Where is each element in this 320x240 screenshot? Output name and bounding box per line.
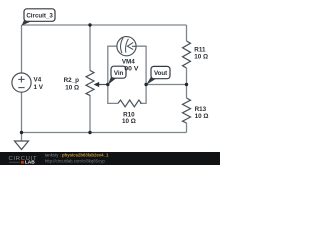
footer logo LAB row bbox=[9, 161, 20, 163]
wire R2_p bottom lead bbox=[89, 95, 91, 133]
wire right rail middle bbox=[186, 68, 188, 98]
wire R2_p top lead bbox=[89, 25, 91, 70]
svg-text:http://circuitlab.com/c/8kq85c: http://circuitlab.com/c/8kq85cyp bbox=[45, 158, 106, 163]
node Vin junction bbox=[106, 83, 109, 86]
node Circuit_3 callout bbox=[22, 9, 55, 26]
svg-text:10 Ω: 10 Ω bbox=[65, 85, 79, 92]
voltage source V4 bbox=[12, 73, 31, 92]
wire VM4 left branch bbox=[108, 46, 117, 84]
node Vout callout bbox=[146, 66, 170, 84]
voltmeter VM4 bbox=[117, 37, 136, 56]
wire bottom rail bbox=[22, 132, 187, 134]
node ground junction bbox=[20, 131, 23, 134]
resistor R10 bbox=[118, 100, 141, 107]
wire VM4 right branch bbox=[136, 46, 146, 84]
wire right rail upper bbox=[186, 25, 188, 41]
svg-text:V4: V4 bbox=[34, 76, 42, 83]
svg-text:LAB: LAB bbox=[25, 160, 35, 165]
resistor R11 bbox=[183, 41, 191, 68]
node right rail junction bbox=[185, 83, 188, 86]
potentiometer R2_p bbox=[86, 70, 94, 95]
ground bbox=[15, 141, 29, 150]
wire Vin node down to R10 left bbox=[108, 85, 118, 104]
wire R10 right up to Vout node bbox=[140, 85, 146, 104]
svg-text:Vout: Vout bbox=[154, 70, 167, 77]
resistor R13 bbox=[183, 98, 191, 123]
svg-text:Vin: Vin bbox=[114, 70, 124, 77]
svg-text:VM4: VM4 bbox=[122, 58, 135, 65]
R2_p wiper arrow bbox=[98, 84, 108, 86]
svg-text:Circuit_3: Circuit_3 bbox=[26, 12, 53, 19]
footer bar bbox=[0, 152, 220, 165]
wire right rail lower bbox=[186, 123, 188, 133]
node R2_p bottom junction bbox=[88, 131, 91, 134]
wire left rail upper bbox=[21, 25, 23, 73]
svg-text:1 V: 1 V bbox=[34, 84, 44, 91]
wire top rail bbox=[22, 24, 187, 26]
wire ground stub bbox=[21, 133, 23, 142]
svg-text:R2_p: R2_p bbox=[64, 77, 80, 84]
svg-text:10 Ω: 10 Ω bbox=[122, 118, 136, 125]
node Vin callout bbox=[108, 66, 126, 85]
node R2_p top junction bbox=[88, 23, 91, 26]
svg-text:00 V: 00 V bbox=[124, 66, 138, 73]
svg-text:10 Ω: 10 Ω bbox=[195, 113, 209, 120]
node Vout junction bbox=[144, 83, 147, 86]
wire left rail lower bbox=[21, 92, 23, 132]
svg-text:tanksty : physics2b63lab2ex4_1: tanksty : physics2b63lab2ex4_1 bbox=[45, 153, 109, 158]
svg-text:10 Ω: 10 Ω bbox=[194, 53, 208, 60]
wire Vout node to right rail bbox=[146, 84, 186, 86]
